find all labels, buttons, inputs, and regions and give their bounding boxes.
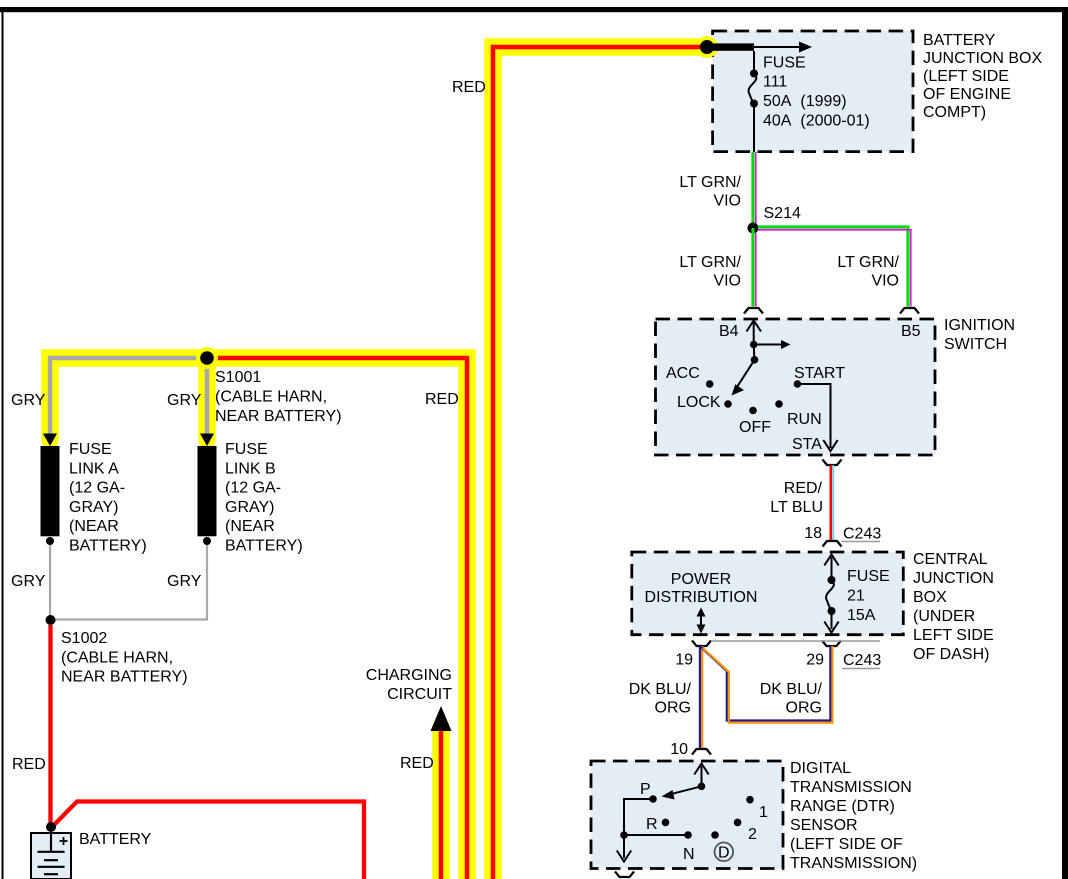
- svg-text:N: N: [683, 846, 695, 863]
- battery cell symbol: [38, 833, 65, 874]
- fuse link A bottom terminal: [46, 537, 54, 545]
- wire LT GRN/VIO S214 to B5: [758, 227, 911, 307]
- svg-text:DK BLU/: DK BLU/: [629, 681, 692, 698]
- bus bar in battery junction box: [707, 43, 754, 50]
- svg-text:TRANSMISSION): TRANSMISSION): [790, 855, 917, 872]
- label fuse link B: [225, 441, 303, 555]
- page border top bar: [0, 7, 1068, 12]
- svg-text:1: 1: [759, 804, 768, 821]
- label wire LT GRN/VIO (above S214): [679, 174, 741, 210]
- connector at STA output: [823, 460, 842, 466]
- svg-text:GRY: GRY: [11, 573, 46, 590]
- svg-text:(12 GA-: (12 GA-: [225, 480, 281, 497]
- fuse link A arrowhead: [43, 434, 57, 447]
- svg-text:P: P: [640, 781, 651, 798]
- splice S1001: [196, 347, 218, 369]
- svg-text:FUSE: FUSE: [847, 568, 890, 585]
- label battery junction box title: [923, 32, 1042, 121]
- svg-text:(12 GA-: (12 GA-: [69, 480, 125, 497]
- ignition switch wiper to LOCK: [737, 360, 755, 387]
- fuse link A body: [41, 446, 60, 536]
- svg-text:(LEFT SIDE: (LEFT SIDE: [923, 68, 1009, 85]
- svg-text:LT BLU: LT BLU: [770, 499, 823, 516]
- svg-text:CIRCUIT: CIRCUIT: [387, 686, 452, 703]
- wire DK BLU/ORG pin19 to pin10: [700, 646, 702, 749]
- ignition switch wiper link: [753, 345, 756, 361]
- label central junction box title: [913, 551, 994, 663]
- power distribution double arrow: [700, 613, 702, 629]
- svg-text:VIO: VIO: [713, 273, 741, 290]
- label fuse link A: [69, 441, 147, 555]
- svg-text:ORG: ORG: [786, 700, 822, 717]
- terminal 1: [746, 796, 754, 804]
- ignition switch box: [656, 319, 936, 455]
- svg-text:21: 21: [847, 588, 865, 605]
- svg-text:RUN: RUN: [787, 411, 822, 428]
- svg-text:ORG: ORG: [655, 700, 691, 717]
- bus output arrow: [754, 46, 801, 48]
- battery positive terminal dot: [46, 822, 56, 832]
- wire RED thick: S1001 riser: [50, 358, 467, 879]
- label splice S1002: [61, 630, 188, 686]
- svg-text:40A (2000-01): 40A (2000-01): [763, 113, 870, 130]
- svg-text:TRANSMISSION: TRANSMISSION: [790, 779, 912, 796]
- svg-text:BATTERY: BATTERY: [79, 831, 152, 848]
- svg-text:10: 10: [670, 741, 688, 758]
- page border right bar: [1062, 7, 1068, 879]
- label DTR sensor title: [790, 760, 917, 872]
- DTR wiper to P: [668, 786, 702, 795]
- svg-text:GRY: GRY: [11, 392, 46, 409]
- label power distribution: [645, 571, 758, 606]
- svg-text:(UNDER: (UNDER: [913, 608, 975, 625]
- wire LT GRN/VIO S214 to B4: [753, 228, 756, 307]
- terminal 2: [734, 819, 742, 827]
- fuse 111 lower lead: [753, 104, 755, 153]
- DTR output arrow down: [623, 835, 625, 858]
- svg-text:GRAY): GRAY): [225, 499, 274, 516]
- splice S214: [748, 223, 759, 234]
- svg-text:LEFT SIDE: LEFT SIDE: [913, 627, 994, 644]
- connector C243 pin 29: [822, 641, 841, 647]
- CJB input arrow: [831, 557, 833, 580]
- svg-text:NEAR BATTERY): NEAR BATTERY): [61, 669, 188, 686]
- svg-text:GRAY): GRAY): [69, 499, 118, 516]
- svg-text:LINK A: LINK A: [69, 460, 119, 477]
- terminal D circle: [715, 843, 734, 862]
- svg-text:R: R: [646, 816, 658, 833]
- wire RED battery feed right: [51, 802, 364, 879]
- svg-text:LINK B: LINK B: [225, 460, 276, 477]
- battery box: [31, 833, 71, 879]
- svg-text:S1001: S1001: [215, 369, 261, 386]
- central junction box: [632, 552, 904, 635]
- fuse 111 element: [750, 70, 758, 78]
- svg-text:GRY: GRY: [167, 392, 202, 409]
- svg-text:OFF: OFF: [739, 419, 771, 436]
- label fuse 111 value: [763, 55, 870, 130]
- connector at B5: [900, 308, 919, 314]
- svg-text:BATTERY: BATTERY: [923, 32, 996, 49]
- ignition switch wiper node: [751, 356, 759, 364]
- fuse 21 output arrow: [831, 611, 833, 629]
- fuse link B body: [198, 446, 217, 536]
- connector pin 10: [692, 749, 711, 755]
- page border left line: [2, 12, 4, 879]
- wire RED thick: riser to battery junction box: [493, 36, 718, 879]
- svg-text:BOX: BOX: [913, 589, 947, 606]
- connector C243 pin 18: [823, 541, 842, 547]
- svg-text:VIO: VIO: [871, 273, 899, 290]
- svg-text:RANGE (DTR): RANGE (DTR): [790, 798, 895, 815]
- svg-text:CHARGING: CHARGING: [366, 667, 452, 684]
- terminal START: [794, 380, 802, 388]
- label wire DK BLU/ORG (pin 29): [760, 681, 823, 717]
- terminal P: [649, 795, 657, 803]
- svg-text:BATTERY): BATTERY): [225, 538, 303, 555]
- wire DK BLU/ORG branch 19 to 29: [701, 646, 832, 723]
- svg-text:LOCK: LOCK: [677, 394, 721, 411]
- svg-text:CENTRAL: CENTRAL: [913, 551, 988, 568]
- label splice S1001: [215, 369, 342, 425]
- svg-text:B5: B5: [901, 323, 921, 340]
- battery junction box (box fill+dash): [713, 31, 913, 152]
- wire common to N: [624, 834, 688, 836]
- svg-text:D: D: [718, 845, 730, 862]
- svg-text:OF ENGINE: OF ENGINE: [923, 86, 1011, 103]
- svg-text:SENSOR: SENSOR: [790, 817, 858, 834]
- arrow to charging circuit: [431, 706, 452, 731]
- fuse 21 element: [828, 576, 836, 584]
- svg-text:S1002: S1002: [61, 630, 107, 647]
- battery plus sign: [60, 837, 68, 845]
- label charging circuit: [366, 667, 452, 703]
- svg-text:LT GRN/: LT GRN/: [679, 254, 741, 271]
- svg-text:GRY: GRY: [167, 573, 202, 590]
- svg-text:B4: B4: [719, 323, 739, 340]
- svg-text:NEAR BATTERY): NEAR BATTERY): [215, 408, 342, 425]
- svg-text:RED: RED: [452, 79, 486, 96]
- ignition switch feed arrow B4: [753, 322, 755, 345]
- svg-text:RED: RED: [12, 756, 46, 773]
- label wire RED/LT BLU: [770, 480, 823, 516]
- DTR input arrow: [701, 766, 703, 786]
- label wire DK BLU/ORG (pin 19): [629, 681, 692, 717]
- svg-text:JUNCTION BOX: JUNCTION BOX: [923, 50, 1042, 67]
- fuse link B arrowhead: [200, 434, 214, 447]
- svg-text:JUNCTION: JUNCTION: [913, 570, 994, 587]
- svg-text:(NEAR: (NEAR: [69, 518, 119, 535]
- svg-text:IGNITION: IGNITION: [944, 317, 1015, 334]
- svg-text:BATTERY): BATTERY): [69, 538, 147, 555]
- svg-text:DK BLU/: DK BLU/: [760, 681, 823, 698]
- svg-text:(LEFT SIDE OF: (LEFT SIDE OF: [790, 836, 903, 853]
- connector C243 link line (pin18): [842, 541, 881, 543]
- DTR common node: [620, 831, 628, 839]
- terminal mid: [711, 831, 719, 839]
- fuse 111 lead: [753, 51, 755, 73]
- svg-text:LT GRN/: LT GRN/: [679, 174, 741, 191]
- svg-text:STA: STA: [792, 436, 822, 453]
- terminal ACC: [706, 380, 714, 388]
- svg-text:(CABLE HARN,: (CABLE HARN,: [215, 389, 327, 406]
- connector C243 link line (pins 19-29): [711, 640, 880, 642]
- svg-text:FUSE: FUSE: [763, 55, 806, 72]
- svg-text:ACC: ACC: [666, 365, 700, 382]
- ignition switch wiper pivot: [750, 341, 758, 349]
- svg-text:FUSE: FUSE: [225, 441, 268, 458]
- DTR wiper node: [698, 783, 706, 791]
- wire RED S1002 to battery: [48, 625, 52, 826]
- svg-text:RED/: RED/: [784, 480, 823, 497]
- label ignition switch title: [944, 317, 1015, 353]
- terminal RUN: [775, 400, 783, 408]
- wire START to STA output: [797, 384, 830, 448]
- wire GRY fuse link A to S1002: [49, 545, 51, 618]
- svg-text:18: 18: [804, 525, 822, 542]
- svg-text:S214: S214: [764, 205, 801, 222]
- terminal R: [662, 819, 670, 827]
- connector at B4: [744, 308, 763, 314]
- svg-text:2: 2: [748, 826, 757, 843]
- terminal LOCK: [724, 400, 732, 408]
- fuse link B bottom terminal: [203, 537, 211, 545]
- svg-text:111: 111: [763, 74, 787, 91]
- wire LT GRN/VIO fuse111 to S214: [753, 152, 756, 227]
- svg-text:SWITCH: SWITCH: [944, 336, 1007, 353]
- svg-text:POWER: POWER: [671, 571, 731, 588]
- svg-text:START: START: [794, 365, 845, 382]
- svg-text:50A (1999): 50A (1999): [763, 93, 847, 110]
- wire P to common: [624, 799, 653, 835]
- svg-text:RED: RED: [400, 755, 434, 772]
- connector C243 pin 19: [692, 641, 711, 647]
- terminal N: [684, 831, 692, 839]
- svg-text:(CABLE HARN,: (CABLE HARN,: [61, 649, 173, 666]
- svg-text:DISTRIBUTION: DISTRIBUTION: [645, 589, 758, 606]
- junction dot at battery junction box: [700, 40, 714, 54]
- svg-text:RED: RED: [425, 391, 459, 408]
- label wire LT GRN/VIO (S214 to B5): [837, 254, 899, 290]
- svg-text:19: 19: [675, 652, 693, 669]
- ignition switch output arrow right: [754, 344, 782, 346]
- svg-text:DIGITAL: DIGITAL: [790, 760, 851, 777]
- svg-text:C243: C243: [843, 526, 881, 543]
- svg-text:LT GRN/: LT GRN/: [837, 254, 899, 271]
- wire RED/LT BLU STA to C243 pin18: [831, 465, 833, 541]
- terminal OFF: [749, 407, 757, 415]
- svg-text:29: 29: [806, 652, 824, 669]
- label wire LT GRN/VIO (S214 to B4): [679, 254, 741, 290]
- digital transmission range sensor box: [591, 761, 783, 869]
- connector below DTR: [615, 872, 634, 878]
- svg-text:OF DASH): OF DASH): [913, 646, 989, 663]
- svg-text:(NEAR: (NEAR: [225, 518, 275, 535]
- wire GRY fuse link B to S1002: [54, 545, 207, 620]
- svg-text:C243: C243: [843, 652, 881, 669]
- svg-text:FUSE: FUSE: [69, 441, 112, 458]
- splice S1002: [46, 615, 56, 625]
- svg-text:15A: 15A: [847, 607, 876, 624]
- wire RED thick: charging circuit riser: [432, 727, 450, 879]
- label fuse 21 value: [847, 568, 890, 624]
- svg-text:VIO: VIO: [713, 193, 741, 210]
- svg-text:COMPT): COMPT): [923, 104, 986, 121]
